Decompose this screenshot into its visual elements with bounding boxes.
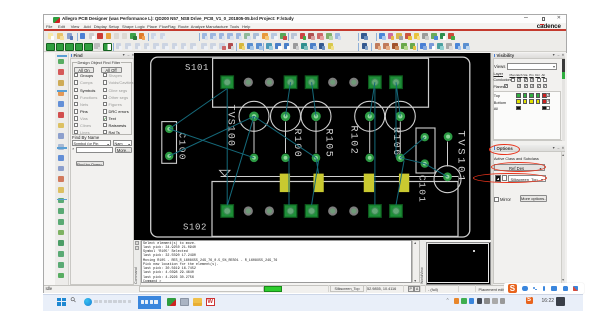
menu bar <box>44 23 567 29</box>
Visibility panel <box>493 53 566 141</box>
red annotation ellipse around Ref Des <box>491 162 547 172</box>
ratsnest wire 16 <box>400 157 424 163</box>
R105 lead wire <box>315 121 317 153</box>
ratsnest wire 8 <box>370 82 375 116</box>
windows taskbar <box>43 294 583 311</box>
sogou S logo <box>508 284 517 293</box>
C101 pin 2 pad <box>421 159 429 167</box>
status bar <box>44 285 567 293</box>
red accent line <box>44 29 567 31</box>
pin-1 triangle marker <box>220 170 231 176</box>
search icon <box>69 295 78 304</box>
S102 top line <box>221 175 459 177</box>
ratsnest wire 10 <box>288 157 290 204</box>
C100 pin 2 pad <box>165 151 173 159</box>
yellow SMD pad 4 <box>399 173 409 192</box>
svg-text:C101: C101 <box>417 175 428 203</box>
TVS100 lead wire <box>253 121 255 153</box>
taskbar news text <box>94 300 98 304</box>
ratsnest wire 14 <box>396 160 404 205</box>
ratsnest wire 15 <box>400 137 424 158</box>
svg-text:R102: R102 <box>348 125 359 155</box>
layer color rows <box>493 91 561 141</box>
R102 lead wire <box>369 121 371 153</box>
ratsnest wire 17 <box>425 163 448 176</box>
right dock background <box>491 53 567 285</box>
left toolbar icons <box>58 58 66 66</box>
R106 pin 1 pad <box>396 111 406 121</box>
ratsnest wire 5 <box>254 116 316 158</box>
S101 pin 4 pad <box>284 75 297 88</box>
S102 pin 9 pad <box>390 204 403 217</box>
R105 pin 1 pad <box>311 111 321 121</box>
Find panel <box>70 53 135 285</box>
Find By Name section <box>72 135 99 140</box>
S102 pin 1 pad <box>221 204 234 217</box>
S101 pin 3 pad <box>265 77 274 86</box>
TVS101 lead <box>447 141 449 166</box>
left vertical toolbar <box>55 53 69 285</box>
capacitor C100 outline <box>162 121 177 163</box>
Options title bar <box>493 145 566 152</box>
Ref Des dropdown <box>494 164 545 171</box>
planes row <box>494 85 505 89</box>
Visibility title bar <box>493 53 566 59</box>
ratsnest wire 12 <box>374 88 376 205</box>
svg-text:C100: C100 <box>177 132 188 160</box>
yellow SMD pad 1 <box>280 173 290 192</box>
ratsnest wire 7 <box>312 82 316 116</box>
left margin strip <box>44 53 56 285</box>
start button <box>57 298 66 307</box>
allegro app icon <box>53 17 60 23</box>
capacitor C101 outline <box>416 128 435 173</box>
R106 lead wire <box>399 121 401 153</box>
yellow SMD pad 3 <box>364 173 374 192</box>
ratsnest wire 3 <box>169 128 254 157</box>
S101 pin 2 pad <box>244 77 253 86</box>
worldview panel <box>426 242 491 285</box>
console scrollbar <box>412 240 420 284</box>
S102 pin 5 pad <box>305 204 318 217</box>
system tray <box>446 298 450 304</box>
ratsnest wire 2 <box>169 88 227 128</box>
R102 pin 2 pad <box>365 153 374 162</box>
S102 pin 4 pad <box>284 204 297 217</box>
Design Object Find Filter group box <box>72 62 133 135</box>
R106 pin 2 pad <box>396 153 405 162</box>
ratsnest wire 19 <box>316 157 319 173</box>
svg-text:R105: R105 <box>323 128 334 158</box>
TVS101 circle <box>434 165 461 192</box>
S102 pin 3 pad <box>265 206 274 215</box>
app window <box>43 14 567 293</box>
connector S101 outline <box>213 58 429 107</box>
ratsnest wire 11 <box>312 160 319 205</box>
ratsnest wire 13 <box>395 88 397 157</box>
S101 pin 6 pad <box>328 77 337 86</box>
R102 pin 1 pad <box>365 111 375 121</box>
subclass color + dropdown row <box>495 175 501 182</box>
resistor R106 outline <box>385 101 415 131</box>
board outline <box>151 57 470 237</box>
resistor R100 outline <box>271 101 301 131</box>
ratsnest wire 9 <box>396 82 400 116</box>
R100 pin 1 pad <box>281 111 291 121</box>
svg-text:S101: S101 <box>185 63 209 73</box>
toolbar row 1 <box>47 33 55 41</box>
sogou toolbar icons <box>522 286 529 291</box>
mirror checkbox <box>494 197 499 202</box>
green progress block <box>264 286 282 292</box>
TVS101 pin 2 pad <box>443 172 452 181</box>
S101 pin 9 pad <box>390 75 403 88</box>
find filter checkbox rows <box>74 73 78 77</box>
ratsnest wire 1 <box>226 88 228 205</box>
toolbar area <box>44 31 567 53</box>
S101 pin 1 pad <box>221 75 234 88</box>
TVS100 pin 1 pad <box>249 111 259 121</box>
ratsnest wire 6 <box>286 82 291 116</box>
S101 pin 7 pad <box>349 77 358 86</box>
visibility scrollbar <box>562 59 566 141</box>
S102 pin 6 pad <box>328 206 337 215</box>
connector S102 outline <box>212 181 458 236</box>
edge icon <box>84 298 92 306</box>
red annotation ellipse around Options title <box>489 144 520 155</box>
R100 pin 2 pad <box>281 153 290 162</box>
All On / All Off buttons <box>74 67 94 73</box>
title bar <box>44 15 567 24</box>
window min/max/close buttons <box>524 14 528 21</box>
options scrollbar <box>561 152 565 283</box>
Find by Query button <box>76 161 104 167</box>
more options button <box>520 195 547 202</box>
cadence logo <box>537 23 561 30</box>
yellow SMD pad 2 <box>313 173 323 192</box>
R105 pin 2 pad <box>312 153 321 162</box>
taskbar app icons <box>167 298 176 307</box>
worldview tab strip <box>420 240 426 285</box>
ratsnest wire 18 <box>227 116 254 205</box>
svg-text:S102: S102 <box>183 222 207 232</box>
C100 pin 1 pad <box>165 124 173 132</box>
S102 pin 2 pad <box>244 206 253 215</box>
TVS100 pin 2 pad <box>250 153 259 162</box>
conductors row <box>494 78 512 82</box>
C101 pin 1 pad <box>421 133 429 141</box>
svg-text:TVS101: TVS101 <box>455 130 467 183</box>
S102 pin 8 pad <box>369 204 382 217</box>
main PCB canvas <box>134 53 491 240</box>
command console text <box>141 240 412 284</box>
red annotation ellipse around Silkscreen_Top <box>473 173 547 183</box>
S101 pin 5 pad <box>305 75 318 88</box>
toolbar row 2 <box>46 43 55 52</box>
resistor R105 outline <box>301 101 331 131</box>
S101 pin 8 pad <box>369 75 382 88</box>
blue search box <box>138 296 161 309</box>
Find panel title bar <box>70 53 135 59</box>
R100 lead wire <box>285 121 287 153</box>
tvs diode TVS100 outline <box>239 101 269 131</box>
sogou input bar <box>504 283 584 294</box>
Options panel <box>493 145 566 284</box>
command console strip <box>134 240 141 285</box>
resistor R102 outline <box>355 101 385 131</box>
ratsnest wire 4 <box>169 116 254 156</box>
svg-text:R100: R100 <box>291 128 302 158</box>
TVS101 pin 1 pad <box>444 132 453 141</box>
S102 pin 7 pad <box>349 206 358 215</box>
